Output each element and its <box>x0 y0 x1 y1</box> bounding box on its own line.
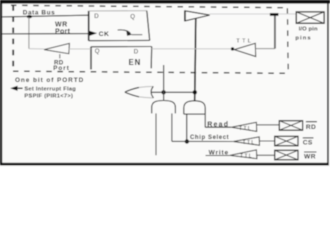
svg-text:PSPIF (PIR1<7>): PSPIF (PIR1<7>) <box>24 94 73 100</box>
svg-text:I/O pin: I/O pin <box>299 27 318 33</box>
TTL input buffer U3 <box>234 43 255 56</box>
AND gate G2 (write strobe) <box>152 101 176 114</box>
junction dot on data bus <box>27 15 32 18</box>
arrowhead into CK <box>89 31 97 36</box>
wire U6 to WR pin <box>257 154 275 156</box>
TTL buffer U4 (RD) <box>231 122 256 131</box>
input latch U2 : right edge <box>150 47 153 69</box>
svg-text:Set Interrupt Flag: Set Interrupt Flag <box>24 86 76 92</box>
node junction right AND output <box>193 90 197 94</box>
svg-text:TTL: TTL <box>243 140 256 146</box>
TTL buffer U6 (WR) <box>230 150 257 159</box>
svg-text:CS: CS <box>303 139 313 146</box>
svg-text:EN: EN <box>129 58 142 67</box>
enable wire from Read AND gate up to output buffer <box>195 19 196 101</box>
input latch U2 : top edge <box>91 46 152 48</box>
svg-text:TTL: TTL <box>240 154 253 160</box>
output dot of U3 <box>231 47 234 50</box>
wire Read <box>205 126 231 128</box>
svg-text:TTL: TTL <box>236 38 253 44</box>
input latch U2 : left edge <box>90 47 92 70</box>
frame border bottom <box>0 163 329 166</box>
svg-text:pins: pins <box>295 35 311 41</box>
wire pin to U3 input <box>256 48 275 50</box>
svg-text:WR: WR <box>304 154 316 161</box>
OR gate G1 facing left <box>125 87 139 92</box>
wire data bus <box>2 15 88 17</box>
svg-text:D: D <box>134 48 139 55</box>
svg-text:Port: Port <box>55 28 71 35</box>
I/O pin symbol <box>296 12 324 23</box>
svg-text:CK: CK <box>99 31 110 38</box>
svg-text:Q: Q <box>95 48 100 55</box>
output buffer to pin <box>185 11 210 21</box>
TTL buffer U5 (CS) <box>233 137 259 145</box>
dashed enclosure : left <box>12 5 14 70</box>
wire U3 to D of U2 (faint) <box>152 48 231 50</box>
output data latch U1 : bottom edge <box>89 39 150 41</box>
frame border right <box>327 0 329 166</box>
svg-text:D: D <box>94 13 99 20</box>
AND gate G3 (read strobe) <box>184 101 205 114</box>
enable stub of RD Port buffer <box>59 54 61 58</box>
wire vertical from data bus to RD Port buffer <box>28 17 30 49</box>
wire WR Port <box>2 33 89 35</box>
output data latch U1 : left edge <box>88 11 90 41</box>
svg-text:Port: Port <box>53 65 70 72</box>
dashed enclosure : right <box>286 8 289 73</box>
wire Chip Select <box>172 140 233 142</box>
wire U4 to RD pin <box>257 124 280 126</box>
svg-text:Q: Q <box>130 13 135 20</box>
frame border top <box>0 0 330 4</box>
G3 bottom edge <box>184 113 205 115</box>
clock edge arrow inside U1 <box>118 30 131 33</box>
junction dot on Chip Select wire <box>185 139 189 143</box>
page background <box>0 0 330 167</box>
svg-text:Chip Select: Chip Select <box>190 135 229 141</box>
G3 input riser to Read wire <box>204 114 206 127</box>
wire U5 to CS pin <box>260 140 275 142</box>
wire Write <box>206 155 230 157</box>
svg-text:Data Bus: Data Bus <box>23 9 56 16</box>
wire U2 Q to RD Port buffer <box>69 48 91 50</box>
pin symbol RD <box>279 121 302 131</box>
output data latch U1 : right edge <box>147 11 150 41</box>
pin symbol WR <box>275 150 298 160</box>
G2 input riser to Chip Select wire <box>171 113 173 141</box>
svg-text:TTL: TTL <box>239 126 252 132</box>
dashed enclosure One bit of PORTD : top <box>11 5 288 7</box>
junction blob at I/O wire <box>270 13 279 16</box>
wire stub to RD Port buffer output <box>29 48 44 50</box>
wire vertical pin branch <box>274 15 276 49</box>
OR gate input wire <box>152 91 195 93</box>
frame border left <box>0 0 2 166</box>
pin symbol CS <box>275 136 298 146</box>
wire output buffer to I/O pin (faint) <box>210 13 296 15</box>
output data latch U1 : top edge <box>89 10 147 12</box>
dashed enclosure : bottom <box>13 71 288 73</box>
arrow to Set Interrupt Flag <box>10 86 17 91</box>
tri-state buffer RD Port <box>44 43 69 53</box>
G2 output riser to EN <box>163 65 165 101</box>
svg-text:One bit of PORTD: One bit of PORTD <box>15 77 84 84</box>
G3 input riser to Chip Select wire <box>186 114 188 141</box>
Q output stub line inside U1 <box>132 34 143 36</box>
G2 input riser to Write wire <box>155 113 157 155</box>
node junction left AND output <box>161 90 165 94</box>
svg-text:RD: RD <box>306 124 316 131</box>
